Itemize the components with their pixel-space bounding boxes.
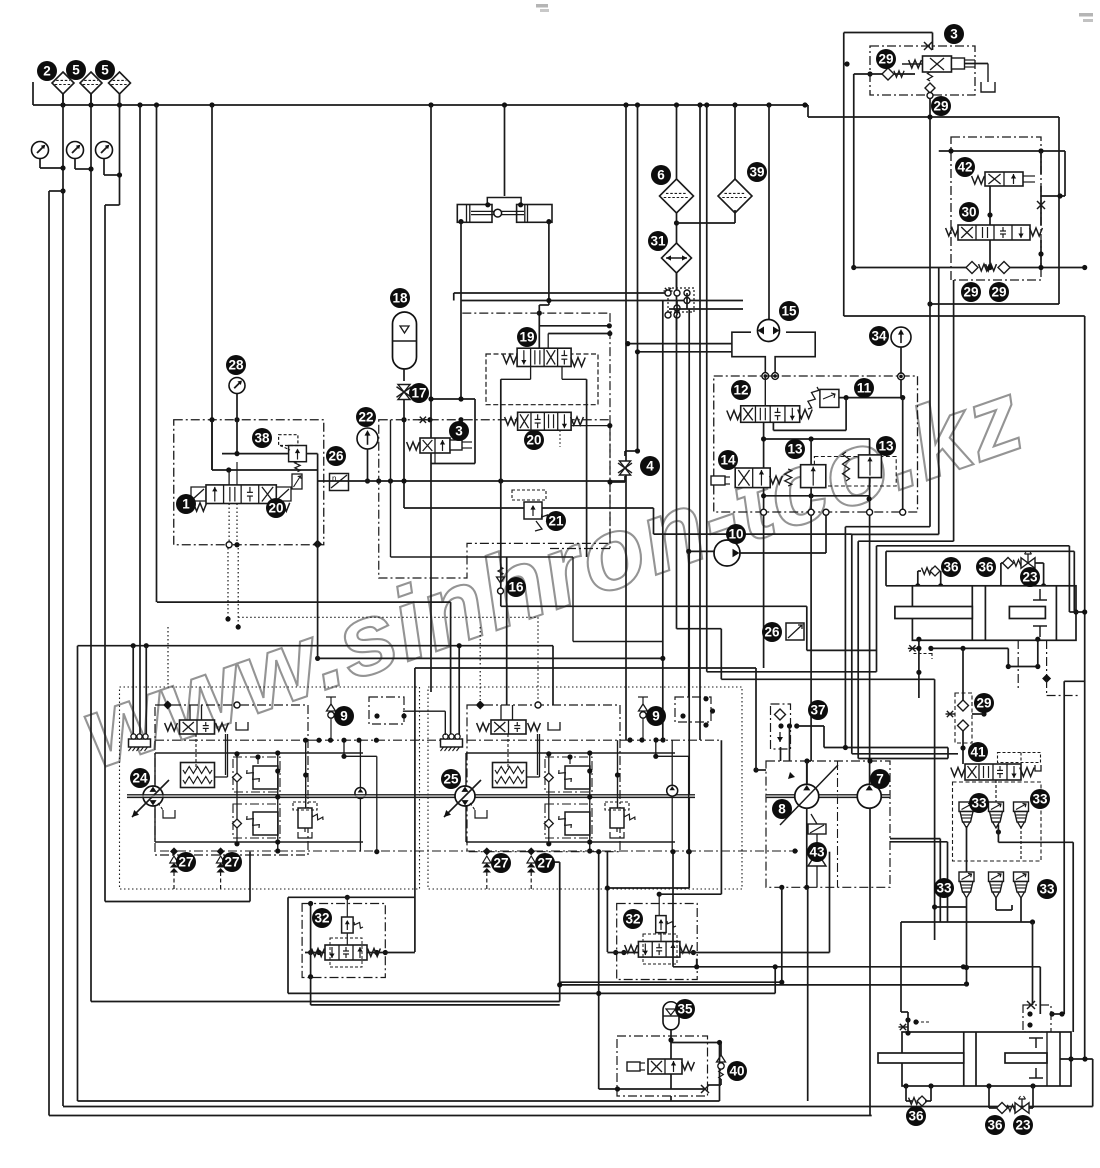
- svg-text:33: 33: [1032, 792, 1048, 807]
- svg-text:40: 40: [729, 1064, 744, 1079]
- svg-text:26: 26: [328, 449, 344, 464]
- svg-text:38: 38: [254, 431, 270, 446]
- svg-text:5: 5: [101, 63, 109, 78]
- svg-text:26: 26: [764, 625, 780, 640]
- svg-text:33: 33: [971, 796, 987, 811]
- svg-text:33: 33: [936, 881, 952, 896]
- svg-text:39: 39: [749, 165, 764, 180]
- svg-text:18: 18: [392, 291, 408, 306]
- svg-text:36: 36: [908, 1109, 924, 1124]
- svg-text:29: 29: [933, 99, 948, 114]
- svg-text:3: 3: [950, 27, 958, 42]
- svg-text:19: 19: [519, 330, 534, 345]
- svg-text:31: 31: [650, 234, 666, 249]
- svg-text:30: 30: [961, 205, 976, 220]
- svg-text:23: 23: [1015, 1118, 1031, 1133]
- svg-text:32: 32: [625, 912, 640, 927]
- svg-text:8: 8: [778, 802, 786, 817]
- svg-text:24: 24: [132, 771, 148, 786]
- svg-text:27: 27: [537, 856, 552, 871]
- svg-text:4: 4: [646, 459, 654, 474]
- svg-text:7: 7: [876, 772, 884, 787]
- svg-text:41: 41: [970, 745, 986, 760]
- svg-text:27: 27: [224, 855, 239, 870]
- svg-text:42: 42: [957, 160, 972, 175]
- svg-text:20: 20: [526, 433, 541, 448]
- svg-text:43: 43: [809, 845, 825, 860]
- svg-text:2: 2: [43, 64, 51, 79]
- svg-text:34: 34: [871, 329, 887, 344]
- svg-text:27: 27: [178, 855, 193, 870]
- svg-text:13: 13: [878, 439, 894, 454]
- svg-text:6: 6: [657, 168, 665, 183]
- svg-text:20: 20: [268, 501, 283, 516]
- svg-text:16: 16: [508, 580, 524, 595]
- svg-text:22: 22: [358, 410, 373, 425]
- svg-text:11: 11: [857, 381, 872, 396]
- svg-text:12: 12: [733, 383, 748, 398]
- svg-text:1: 1: [182, 497, 190, 512]
- svg-text:9: 9: [652, 709, 660, 724]
- svg-text:21: 21: [548, 514, 564, 529]
- svg-text:36: 36: [978, 560, 994, 575]
- svg-text:15: 15: [781, 304, 797, 319]
- svg-text:9: 9: [340, 709, 348, 724]
- svg-text:17: 17: [411, 386, 426, 401]
- svg-text:36: 36: [987, 1118, 1003, 1133]
- svg-text:28: 28: [228, 358, 244, 373]
- svg-text:29: 29: [991, 285, 1006, 300]
- svg-text:32: 32: [314, 911, 329, 926]
- svg-text:3: 3: [455, 424, 463, 439]
- svg-text:37: 37: [810, 703, 825, 718]
- svg-text:13: 13: [787, 442, 803, 457]
- svg-text:25: 25: [443, 772, 459, 787]
- svg-text:5: 5: [72, 63, 80, 78]
- svg-text:23: 23: [1022, 570, 1038, 585]
- svg-text:33: 33: [1039, 882, 1055, 897]
- svg-text:10: 10: [728, 527, 743, 542]
- svg-text:35: 35: [677, 1002, 693, 1017]
- svg-text:29: 29: [976, 696, 991, 711]
- svg-text:29: 29: [963, 285, 978, 300]
- svg-text:14: 14: [720, 453, 736, 468]
- svg-text:27: 27: [493, 856, 508, 871]
- svg-text:29: 29: [878, 52, 893, 67]
- svg-text:36: 36: [943, 560, 959, 575]
